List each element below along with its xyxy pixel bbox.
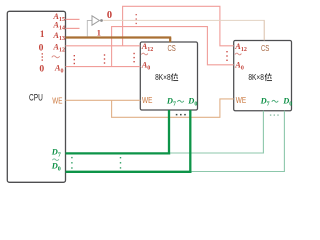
svg-text:8K×8: 8K×8 <box>248 73 264 82</box>
inverter G1 bubble <box>100 19 103 22</box>
wire A15 stub <box>66 18 80 20</box>
wire A13 stub into U1 CS <box>169 38 171 43</box>
svg-text:WE: WE <box>52 97 63 106</box>
dots address mid <box>104 54 105 63</box>
tilde between A12 and A0 <box>52 56 60 58</box>
wire A14 stub <box>66 27 80 29</box>
wire D0 bus light segment <box>191 171 284 173</box>
tilde between D7 D0 <box>52 159 58 161</box>
svg-text:0: 0 <box>107 10 112 21</box>
wire U1 D7 pin <box>168 110 170 155</box>
svg-text:CS: CS <box>261 43 270 53</box>
dots address before U1 <box>133 53 134 63</box>
wire A0 bus CPU to U1 <box>66 66 141 68</box>
memory chip U2 box <box>234 41 292 111</box>
CPU box <box>7 11 65 182</box>
U1 tilde <box>141 53 147 55</box>
wire U1 D0 pin <box>189 110 191 173</box>
dots data below U2 <box>270 114 279 115</box>
wire inverter input tap <box>87 21 92 37</box>
wire U2 CS stub <box>263 20 265 40</box>
wire WE branch to U2 <box>112 99 234 117</box>
wire WE CPU to U1 <box>66 99 141 101</box>
dots address after CPU <box>74 55 75 64</box>
svg-text:CS: CS <box>168 43 177 53</box>
svg-text:0: 0 <box>39 42 44 53</box>
wire U2 D7 pin <box>262 111 264 154</box>
svg-text:1: 1 <box>97 29 101 38</box>
wire A13 select line <box>66 36 172 38</box>
dots data below U1 <box>176 114 186 116</box>
svg-text:0: 0 <box>39 64 44 75</box>
dots address before U2 <box>226 51 227 61</box>
wire A12 branch to U2 <box>123 6 234 46</box>
dots data mid <box>120 157 121 169</box>
wire inverted A13 to U2 CS <box>103 19 264 21</box>
svg-text:1: 1 <box>40 29 45 39</box>
wire D7 bus <box>66 152 171 154</box>
memory chip U1 box <box>140 42 197 110</box>
wire A0 branch to U2 <box>112 27 234 67</box>
inverter G1 <box>92 16 99 25</box>
wire U2 D0 pin <box>283 111 285 172</box>
U2 hanzi wei <box>265 73 272 81</box>
svg-text:WE: WE <box>236 96 247 105</box>
wire D7 bus light segment <box>170 152 263 154</box>
ellipsis values <box>42 53 43 54</box>
svg-text:8K×8: 8K×8 <box>155 73 171 82</box>
U2 tilde <box>235 53 241 55</box>
svg-text:CPU: CPU <box>29 93 43 103</box>
dots data after CPU <box>71 157 72 169</box>
svg-text:WE: WE <box>142 96 153 105</box>
U1 hanzi wei <box>171 73 178 81</box>
dots address top branch <box>136 14 137 24</box>
wire D0 bus <box>66 171 192 173</box>
wire A12 bus CPU to U1 <box>66 45 141 47</box>
